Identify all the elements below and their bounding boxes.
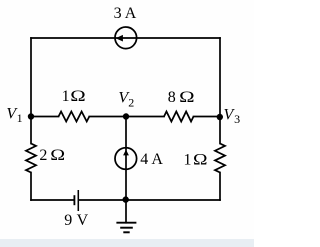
- wire middle R8 to V3: [194, 116, 221, 118]
- svg-text:2: 2: [128, 95, 134, 109]
- wire middle R1 to R8: [89, 116, 164, 118]
- current source I1 3A circle: [115, 27, 137, 49]
- node V1 dot: [28, 113, 34, 119]
- node ground junction dot: [123, 196, 129, 202]
- resistor R2 2ohm vertical: [26, 144, 36, 173]
- wire right vertical upper: [219, 38, 221, 144]
- wire middle V1 to R1: [31, 116, 59, 118]
- bottom strip: [0, 239, 254, 247]
- battery B1 long plate: [77, 190, 79, 211]
- svg-text:1: 1: [184, 151, 192, 168]
- svg-text:Ω: Ω: [179, 88, 194, 106]
- resistor R4 1ohm vertical: [215, 144, 225, 173]
- current source I2 arrowhead: [123, 150, 129, 156]
- current source I2 4A circle: [115, 148, 137, 170]
- wire right vertical lower: [219, 173, 221, 201]
- wire ground stem: [125, 200, 127, 223]
- svg-text:Ω: Ω: [50, 146, 65, 164]
- wire left vertical upper: [30, 38, 32, 144]
- svg-text:3: 3: [234, 112, 240, 126]
- svg-text:1: 1: [17, 111, 23, 125]
- node V2 dot: [123, 113, 129, 119]
- svg-text:1: 1: [62, 88, 70, 105]
- ground bar 1: [116, 222, 136, 224]
- battery B1 short plate: [73, 195, 75, 205]
- wire bottom-right: [79, 199, 220, 201]
- svg-text:Ω: Ω: [70, 87, 85, 105]
- svg-text:V: V: [77, 212, 89, 229]
- resistor R1 1ohm horizontal: [59, 112, 90, 122]
- node V3 dot: [217, 114, 223, 120]
- resistor R8 8ohm horizontal: [164, 112, 194, 122]
- svg-text:Ω: Ω: [193, 150, 207, 168]
- ground bar 2: [120, 227, 133, 229]
- current source I1 arrowhead: [116, 35, 123, 42]
- wire left vertical lower: [30, 173, 32, 201]
- wire top: [31, 37, 220, 39]
- svg-text:4 A: 4 A: [140, 151, 163, 168]
- svg-text:9: 9: [64, 212, 72, 229]
- ground bar 3: [123, 231, 129, 233]
- svg-text:3 A: 3 A: [114, 5, 137, 22]
- svg-text:2: 2: [39, 147, 47, 164]
- svg-text:8: 8: [168, 89, 176, 106]
- wire middle branch: [125, 117, 127, 201]
- wire bottom-left: [31, 199, 74, 201]
